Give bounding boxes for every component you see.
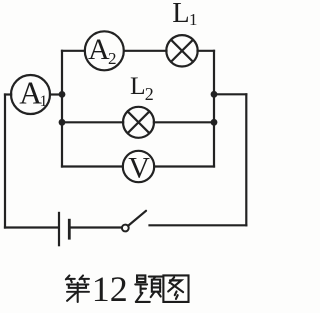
battery long plate	[58, 212, 60, 247]
wire: bottom branch, V to right column	[154, 165, 214, 167]
wire: top branch, A2 to L1	[124, 50, 167, 52]
wire: top branch, node to A2	[62, 50, 85, 52]
switch pivot circle	[122, 225, 129, 232]
battery short plate	[68, 219, 71, 240]
svg-text:A: A	[88, 33, 110, 66]
node dot: left column / L2	[59, 119, 66, 126]
wire: bottom right to switch	[150, 224, 247, 226]
wire: left junction column	[61, 51, 63, 167]
lamp L1	[166, 35, 197, 66]
svg-text:L: L	[172, 0, 189, 29]
wire: right junction column	[213, 51, 215, 167]
svg-text:V: V	[128, 152, 150, 185]
wire: bottom left to battery	[5, 226, 58, 228]
caption: 题 (hand-drawn glyph)	[135, 275, 162, 301]
node dot: left column / A1	[59, 91, 66, 98]
wire: left outer vertical	[4, 95, 6, 228]
node dot: right column / outer wire	[211, 91, 218, 98]
lamp L2	[123, 107, 154, 138]
wire: middle branch, node to L2	[62, 121, 123, 123]
wire: bottom branch, column to V	[62, 165, 123, 167]
ammeter A1	[11, 75, 50, 114]
wire: A1 left stub	[5, 93, 11, 95]
wire: top branch, L1 to right column	[198, 50, 215, 52]
svg-text:1: 1	[189, 10, 198, 29]
wire: middle branch, L2 to right column	[154, 121, 214, 123]
caption: 图 (hand-drawn glyph)	[163, 275, 188, 301]
svg-text:12: 12	[92, 269, 128, 309]
node dot: right column / L2	[211, 119, 218, 126]
svg-text:2: 2	[145, 84, 154, 104]
wire: A1 right stub to node	[50, 93, 62, 95]
switch lever	[128, 211, 146, 226]
wire: right outer vertical	[245, 94, 247, 225]
svg-text:2: 2	[108, 49, 117, 68]
svg-text:L: L	[130, 71, 146, 100]
caption: 第 (hand-drawn glyph)	[66, 275, 89, 302]
svg-text:1: 1	[40, 93, 48, 110]
voltmeter V	[123, 151, 154, 182]
wire: right column to outer right	[214, 93, 246, 95]
wire: battery to switch	[70, 226, 122, 228]
ammeter A2	[85, 31, 124, 70]
